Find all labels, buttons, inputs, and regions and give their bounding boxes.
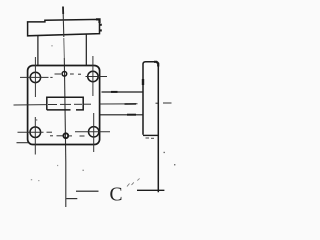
svg-text:C: C xyxy=(110,185,123,206)
